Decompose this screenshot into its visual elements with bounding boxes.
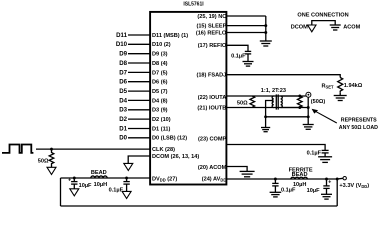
svg-text:D4: D4 [119,97,127,104]
svg-text:1.94kΩ: 1.94kΩ [344,83,363,89]
svg-text:D5: D5 [119,88,127,95]
node 10uF analog tap [325,178,328,181]
pin D11 (1) wire [116,32,188,39]
svg-text:D10 (2): D10 (2) [152,42,171,48]
node supply riser junction [336,178,339,181]
svg-text:(24) AVDD: (24) AVDD [202,177,227,183]
svg-text:+: + [68,177,71,183]
capacitor 10uF digital [68,177,92,189]
svg-text:D3: D3 [119,107,127,114]
pin D8 (4) wire [119,60,167,67]
svg-text:RSET: RSET [321,83,334,89]
svg-text:(17) REFIO: (17) REFIO [198,43,227,49]
svg-text:D8 (4): D8 (4) [152,61,168,67]
ground ACOM earth legend [330,25,341,30]
arrow load callout [312,109,379,131]
wire analog ground rail [264,115,308,118]
svg-text:10µF: 10µF [307,188,320,194]
svg-text:ONE CONNECTION: ONE CONNECTION [297,12,348,18]
ground DCOM triangle 10uF [70,189,79,196]
svg-text:D5 (7): D5 (7) [152,89,168,95]
svg-text:D9: D9 [119,51,127,58]
capacitor 0.1uF analog [272,179,296,194]
wire NC SLEEP REFLO bus to ground [264,16,267,41]
svg-text:+: + [328,180,331,186]
svg-text:D4 (8): D4 (8) [152,98,168,104]
svg-text:(20) ACOM: (20) ACOM [198,165,227,171]
pin D9 (3) wire [119,51,167,58]
inductor FERRITE BEAD 10uH analog [289,167,313,188]
svg-text:D6 (6): D6 (6) [152,80,168,86]
svg-text:0.1µF: 0.1µF [109,187,124,193]
svg-text:BEAD: BEAD [292,172,308,178]
node clock termination junction [50,148,53,151]
svg-text:(15) SLEEP: (15) SLEEP [196,24,226,30]
node 0.1uF digital tap [125,177,128,180]
ground ACOM earth RSET [334,93,347,101]
svg-text:BEAD: BEAD [91,170,107,176]
svg-text:(23) COMP: (23) COMP [198,137,227,143]
svg-text:DCOM: DCOM [291,24,308,30]
svg-text:D1 (11): D1 (11) [152,126,170,132]
svg-text:(50Ω): (50Ω) [311,99,326,105]
ground ACOM earth for SLEEP REFLO [260,41,272,46]
capacitor 0.1uF COMP [307,150,329,156]
ground DCOM triangle [124,163,133,170]
pin D7 (5) wire [119,69,167,76]
svg-text:D1: D1 [119,125,127,132]
svg-text:DCOM (26, 13, 14): DCOM (26, 13, 14) [152,154,199,160]
svg-text:D6: D6 [119,79,127,86]
svg-text:REPRESENTS: REPRESENTS [341,118,377,124]
transformer T1 primary winding [272,96,274,108]
svg-text:(25, 19) NC: (25, 19) NC [197,14,226,20]
pin D4 (8) wire [119,97,167,104]
clock source square wave [2,145,33,153]
pin D2 (10) wire [119,116,171,123]
ground ACOM earth 10uF analog [321,194,332,199]
capacitor 10uF analog [307,179,332,194]
pin COMP (23) wire [198,137,325,151]
svg-text:50Ω: 50Ω [237,100,248,106]
pin D1 (11) wire [119,125,170,132]
ground DCOM triangle 0.1uF [122,191,131,198]
svg-text:D3 (9): D3 (9) [152,108,168,114]
ground ACOM earth center tap [261,117,270,132]
wire transformer center tap [266,101,274,117]
svg-text:D10: D10 [116,41,128,48]
chip title ISL5761 [183,2,204,8]
ground DCOM triangle legend [308,25,316,32]
transformer T1 core [276,94,278,109]
svg-text:CLK (28): CLK (28) [152,147,175,153]
node 0.1uF analog tap [274,178,277,181]
ground ACOM earth load [303,125,314,130]
svg-text:10µF: 10µF [79,183,92,189]
resistor 50 ohm load [297,95,302,109]
terminal +3.3V supply [337,177,369,190]
svg-text:ANY 50Ω LOAD: ANY 50Ω LOAD [339,125,378,131]
wire load return [307,97,310,124]
svg-text:D11: D11 [116,32,127,39]
svg-text:0.1µF: 0.1µF [231,54,246,60]
resistor RSET 1.94k [321,78,362,93]
svg-text:(16) REFLO: (16) REFLO [196,30,227,36]
wire bottom supply rail [61,205,338,207]
pin D3 (9) wire [119,107,167,114]
transformer T1 1:1 label [261,88,286,94]
svg-text:(21) IOUTB: (21) IOUTB [197,106,226,112]
svg-text:ISL5761I: ISL5761I [183,2,204,8]
ground ACOM earth pin [240,171,255,176]
pin DCOM wire [128,154,199,163]
wire analog supply riser [336,179,338,206]
pin REFLO (16) wire [196,30,266,36]
transformer T1 secondary winding [281,96,283,108]
svg-text:0.1µF: 0.1µF [281,188,296,194]
node 10uF digital tap [73,177,76,180]
pin FSADJ (18) wire [196,72,340,78]
pin DVDD (27) wire [61,176,178,182]
svg-text:D11 (MSB) (1): D11 (MSB) (1) [152,33,188,39]
ground ACOM earth COMP cap [318,157,332,163]
svg-text:D7: D7 [119,69,127,76]
terminal output connector [306,92,325,105]
inductor BEAD 10uH digital [91,170,107,188]
svg-text:D2 (10): D2 (10) [152,117,171,123]
pin NC (25,19) wire [197,14,265,20]
resistor 50 ohm across outputs [237,96,255,107]
svg-text:D0: D0 [119,135,127,142]
chip U1 ISL5761 box [150,12,226,185]
ground ACOM earth 0.1uF analog [270,192,282,197]
svg-text:ACOM: ACOM [343,24,360,30]
pin SLEEP (15) wire [196,24,265,30]
capacitor 0.1uF digital [109,178,130,193]
ground ACOM earth REFIO cap [243,62,254,67]
svg-text:0.1µF: 0.1µF [307,151,322,157]
svg-text:D9 (3): D9 (3) [152,52,168,58]
svg-text:10µH: 10µH [94,182,108,188]
pin D5 (7) wire [119,88,167,95]
svg-text:DVDD (27): DVDD (27) [152,176,177,182]
svg-text:10µH: 10µH [293,182,307,188]
svg-text:D8: D8 [119,60,127,67]
pin AVDD (24) wire [202,177,337,183]
wire digital supply riser [60,178,62,206]
svg-text:(22) IOUTA: (22) IOUTA [198,95,227,101]
pin REFIO (17) wire [198,43,248,51]
svg-text:D7 (5): D7 (5) [152,70,168,76]
svg-text:1:1, 2T:23: 1:1, 2T:23 [261,88,286,94]
ground DCOM triangle clock [47,167,56,174]
pin IOUTB (21) wire [197,106,299,112]
pin IOUTA (22) wire [198,95,306,101]
resistor 50 ohm clock termination [38,149,54,167]
wire CLK [36,147,175,153]
pin D0 (12) wire [119,135,187,142]
pin D6 (6) wire [119,79,167,86]
wire secondary bottom to load [281,107,308,109]
pin D10 (2) wire [116,41,171,48]
legend ONE CONNECTION [291,12,361,30]
svg-text:D2: D2 [119,116,127,123]
wire secondary top to load [281,95,300,97]
pin ACOM (20) wire [198,165,247,171]
svg-text:50Ω: 50Ω [38,158,49,164]
svg-text:(18) FSADJ: (18) FSADJ [196,72,226,78]
capacitor 0.1uF REFIO [231,51,251,61]
svg-text:+3.3V (VDD): +3.3V (VDD) [339,183,369,189]
svg-text:D0 (LSB) (12): D0 (LSB) (12) [152,136,187,142]
